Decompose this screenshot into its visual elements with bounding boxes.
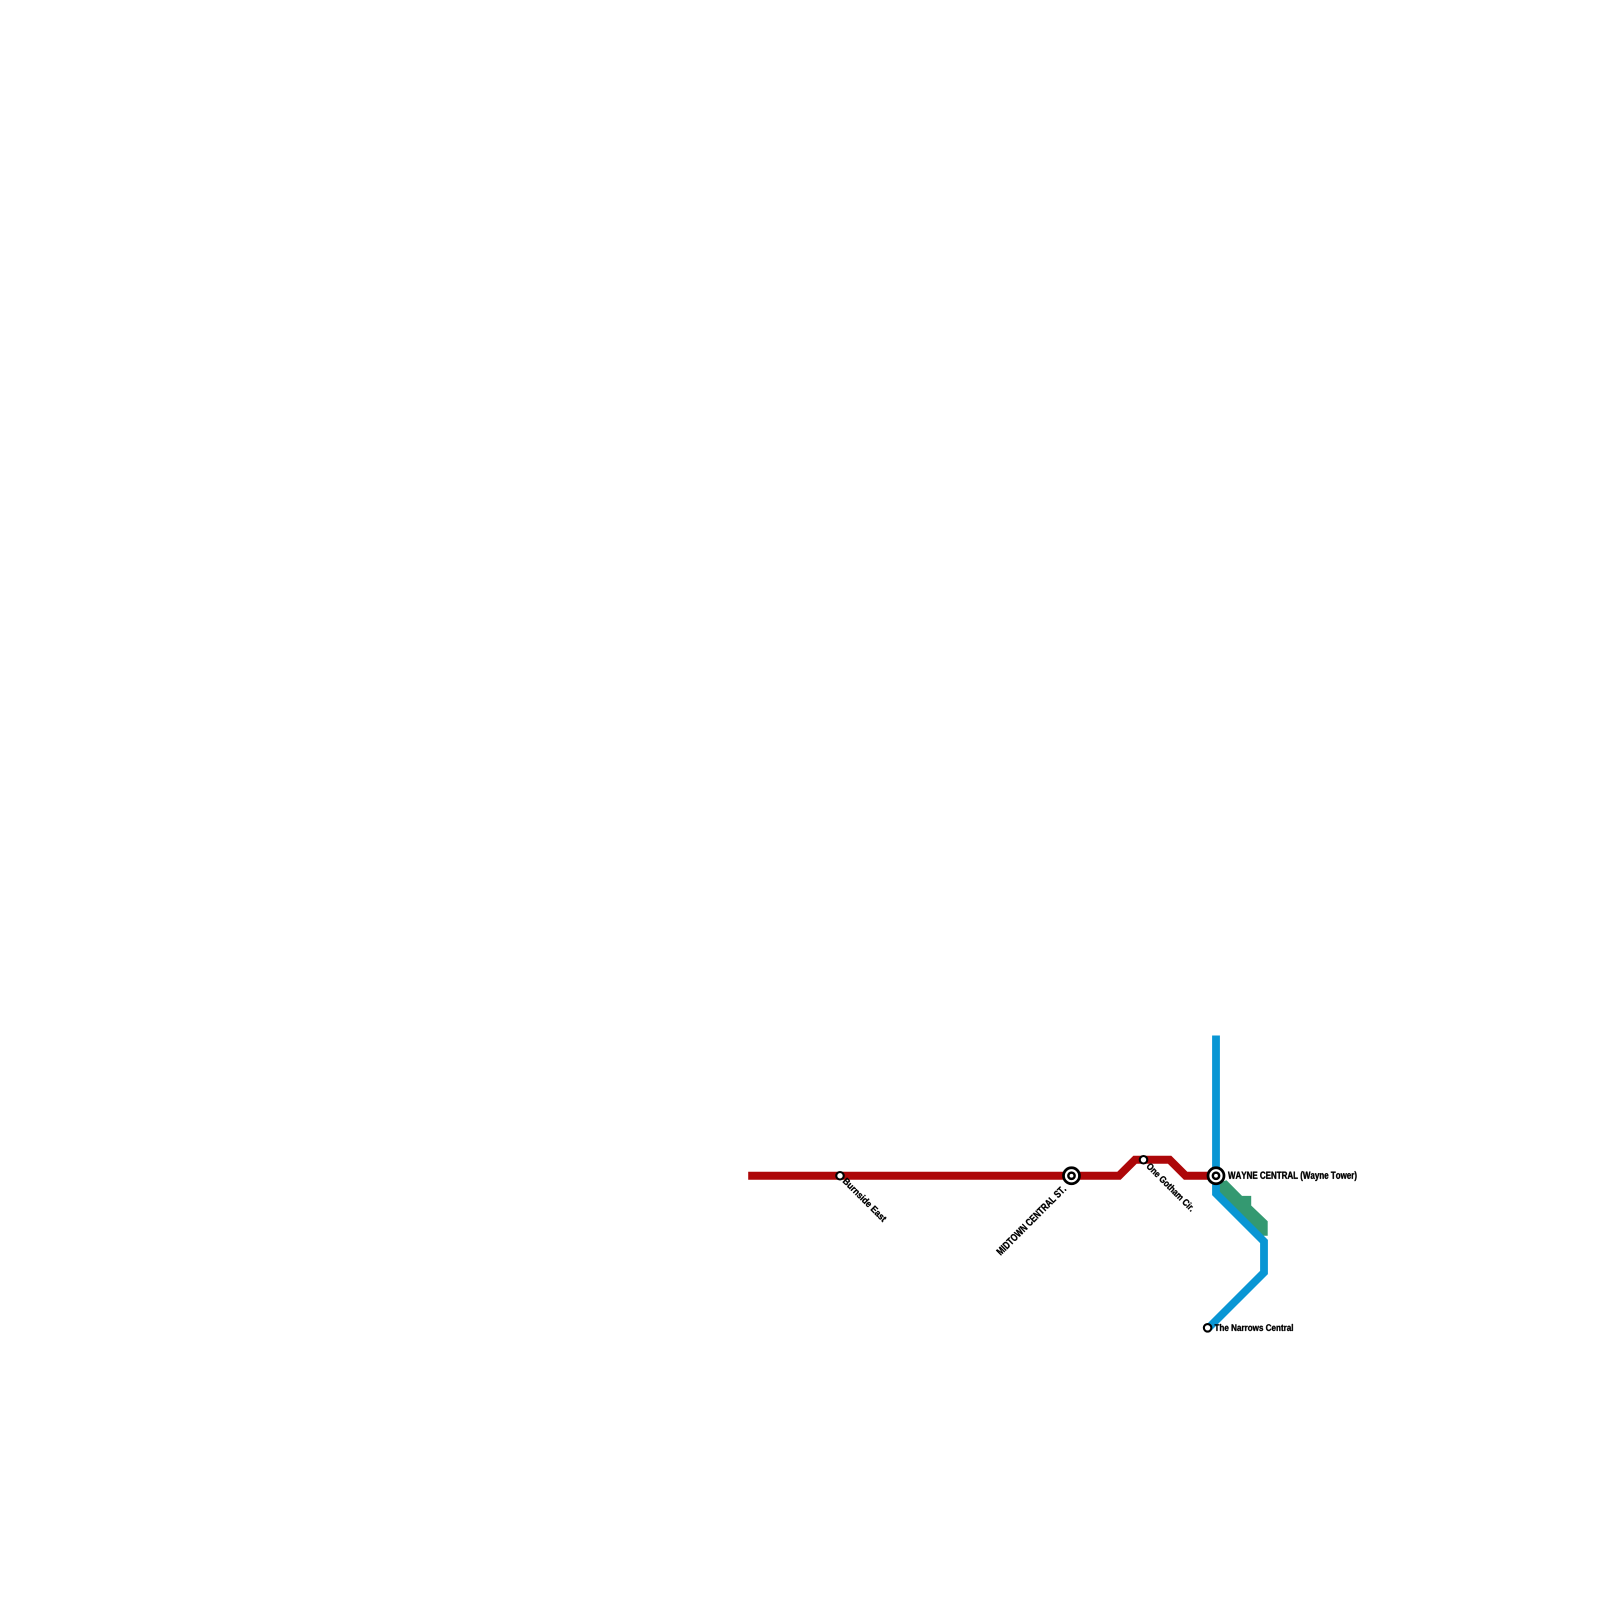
blue line <box>1208 1036 1264 1329</box>
red line <box>748 1160 1216 1176</box>
label WAYNE CENTRAL (Wayne Tower) <box>1228 1171 1357 1181</box>
label The Narrows Central <box>1215 1324 1293 1331</box>
interchange WAYNE CENTRAL <box>1208 1168 1224 1184</box>
station Burnside East <box>836 1172 844 1180</box>
station One Gotham Cir. <box>1140 1156 1148 1164</box>
station The Narrows Central <box>1204 1324 1212 1332</box>
label Burnside East <box>842 1177 887 1222</box>
label MIDTOWN CENTRAL ST. <box>996 1185 1067 1256</box>
label One Gotham Cir. <box>1146 1162 1196 1212</box>
green area (park strip along blue line) <box>1219 1180 1268 1235</box>
interchange MIDTOWN CENTRAL ST. <box>1064 1168 1080 1184</box>
